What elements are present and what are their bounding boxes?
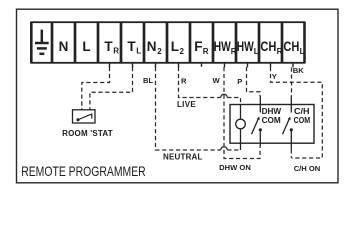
svg-text:R: R <box>277 47 283 56</box>
svg-text:CH: CH <box>283 39 299 54</box>
svg-text:COM: COM <box>262 116 282 125</box>
svg-text:R: R <box>113 47 119 56</box>
svg-text:Y: Y <box>272 72 277 81</box>
wire colour labels <box>143 66 304 86</box>
svg-text:NEUTRAL: NEUTRAL <box>163 153 203 162</box>
svg-text:L: L <box>254 47 259 56</box>
earth terminal symbol <box>35 30 49 54</box>
hump neutral over HWR wire <box>221 147 228 150</box>
wires (dashed) <box>82 67 322 159</box>
svg-text:C/H: C/H <box>294 107 310 116</box>
svg-text:LIVE: LIVE <box>177 100 196 109</box>
wire CHR to C/H ON <box>271 67 323 158</box>
svg-text:REMOTE PROGRAMMER: REMOTE PROGRAMMER <box>21 164 146 179</box>
svg-text:BK: BK <box>293 66 304 75</box>
terminal block outline <box>31 22 304 63</box>
svg-text:L: L <box>300 47 305 56</box>
DHW switch <box>252 96 262 147</box>
pump circle and stem <box>240 105 242 151</box>
svg-text:DHW: DHW <box>262 107 282 116</box>
svg-text:R: R <box>203 47 209 56</box>
svg-text:L: L <box>136 47 141 56</box>
room stat switch <box>76 114 91 122</box>
C/H switch <box>283 96 293 150</box>
svg-text:N: N <box>59 39 69 54</box>
room stat box <box>73 110 96 123</box>
svg-text:W: W <box>213 76 221 85</box>
svg-text:N: N <box>147 39 157 54</box>
hump live over HWR wire <box>221 94 228 97</box>
terminal labels <box>59 39 305 56</box>
svg-text:R: R <box>181 76 187 85</box>
svg-text:BL: BL <box>143 76 153 85</box>
wire L2 live <box>179 67 221 98</box>
svg-text:CH: CH <box>260 39 276 54</box>
svg-text:C/H ON: C/H ON <box>294 164 321 173</box>
terminal dividers <box>52 22 282 63</box>
terminal stubs <box>110 63 294 68</box>
wire TL to room stat <box>90 67 133 110</box>
svg-text:T: T <box>127 39 136 54</box>
svg-text:HW: HW <box>237 39 254 54</box>
svg-text:2: 2 <box>180 47 185 56</box>
svg-text:HW: HW <box>214 39 231 54</box>
svg-text:2: 2 <box>157 47 162 56</box>
wire CHL to C/H COM <box>291 68 293 96</box>
svg-text:DHW ON: DHW ON <box>219 163 251 172</box>
outer border frame <box>17 9 339 183</box>
wire C/H switch lower stem dashed <box>290 149 292 158</box>
svg-text:ROOM 'STAT: ROOM 'STAT <box>62 129 113 138</box>
wire HWR to DHW ON <box>224 67 260 159</box>
svg-text:L: L <box>171 39 179 54</box>
wire HWL to DHW COM <box>247 67 261 96</box>
svg-text:L: L <box>82 39 90 54</box>
wire N2 neutral <box>156 67 221 150</box>
relay box <box>230 105 314 144</box>
svg-text:P: P <box>237 77 242 86</box>
wire TR to room stat <box>82 67 110 110</box>
svg-text:COM: COM <box>294 116 311 125</box>
svg-text:T: T <box>104 39 113 54</box>
svg-text:F: F <box>194 39 202 54</box>
